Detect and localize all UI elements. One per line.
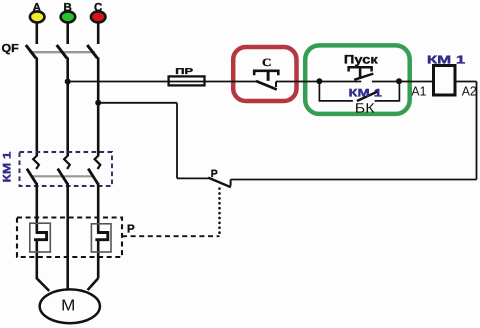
wire phase B lamp to QF [66, 22, 69, 44]
wire C-phase tap down [176, 103, 178, 179]
wire right edge down [476, 82, 478, 180]
svg-text:A2: A2 [462, 84, 477, 99]
wire aux branch left leg [319, 82, 353, 101]
wire start contact to right dot [372, 81, 399, 83]
node right junction in start box [396, 78, 402, 84]
svg-text:ПР: ПР [175, 66, 193, 76]
svg-text:КМ 1: КМ 1 [349, 88, 382, 100]
wire left dot to start contact [319, 81, 361, 83]
stop button red highlight box [233, 47, 296, 101]
wire coil to right edge [455, 81, 477, 83]
relay contact P right hook [230, 180, 232, 186]
breaker QF blade pole A [26, 45, 36, 58]
heater element C jog [95, 233, 107, 240]
wire phase A slant to motor [37, 278, 50, 291]
motor M body [40, 289, 100, 323]
contactor contact A chevron [33, 156, 39, 170]
contactor contact A blade [27, 169, 37, 185]
svg-text:Р: Р [127, 224, 135, 236]
wire phase C lamp to QF [97, 22, 100, 44]
relay contact P blade [208, 178, 231, 188]
svg-text:Пуск: Пуск [344, 52, 379, 66]
stop button plunger stem [267, 72, 270, 81]
contactor contact C blade [88, 169, 98, 185]
heater element A jog [34, 233, 47, 240]
wire phase A lamp to QF [35, 22, 38, 44]
wire C-phase tap horizontal [98, 102, 177, 104]
node left junction in start box [316, 78, 322, 84]
wire phase C KM1 to relay [97, 183, 100, 234]
node tap phase C (junction dot) [95, 100, 101, 106]
contactor KM1 dashed box [20, 152, 113, 186]
node tap phase B (junction dot) [65, 79, 71, 85]
start button plunger bar [349, 67, 372, 71]
svg-text:QF: QF [2, 43, 19, 55]
contactor contact B chevron [64, 156, 70, 170]
contactor KM1 linkage bar [31, 175, 94, 177]
stop button plunger bar [254, 71, 278, 76]
lamp B (green phase indicator) [61, 11, 76, 22]
wire phase C slant to motor [88, 278, 99, 290]
wire phase B KM1 to motor [66, 183, 69, 291]
mechanical link dotted vertical [218, 189, 221, 237]
wire bottom return to P contact [231, 179, 477, 181]
svg-text:С: С [262, 57, 272, 69]
lamp A (yellow phase indicator) [30, 11, 45, 22]
breaker QF blade pole C [87, 45, 97, 58]
wire stop button to start button [276, 81, 319, 83]
start button NO blade [354, 74, 373, 80]
wire phase B QF to KM1 contact [66, 58, 69, 157]
aux contact KM1 blade [357, 91, 379, 101]
wire phase A QF to KM1 contact [35, 58, 38, 157]
fuse PR body [169, 76, 205, 85]
heater element C outer [91, 224, 111, 252]
wire control line B-phase to fuse [68, 81, 259, 83]
wire aux branch right leg [375, 82, 400, 101]
wire right dot to coil [399, 81, 434, 83]
thermal relay P dashed box [17, 218, 122, 258]
breaker QF blade pole B [57, 45, 67, 58]
wire to P contact [177, 177, 209, 179]
breaker QF linkage bar [30, 51, 96, 53]
coil KM1 body [434, 66, 456, 96]
contactor contact B blade [58, 169, 68, 185]
svg-text:A1: A1 [411, 84, 426, 99]
stop button NC blade [256, 81, 277, 90]
start button plunger stem [359, 68, 362, 77]
svg-text:БК: БК [355, 100, 375, 115]
mechanical link dashed horizontal [122, 235, 220, 237]
svg-text:М: М [61, 298, 75, 315]
heater element A outer [30, 223, 51, 252]
start button green highlight box [305, 45, 410, 114]
lamp C (red phase indicator) [91, 11, 106, 22]
contactor contact C chevron [95, 156, 101, 170]
stop button right terminal hook [275, 82, 277, 88]
wire phase C QF to KM1 contact [97, 58, 100, 157]
wire phase A KM1 to relay [35, 183, 38, 234]
svg-text:КМ 1: КМ 1 [2, 152, 14, 183]
